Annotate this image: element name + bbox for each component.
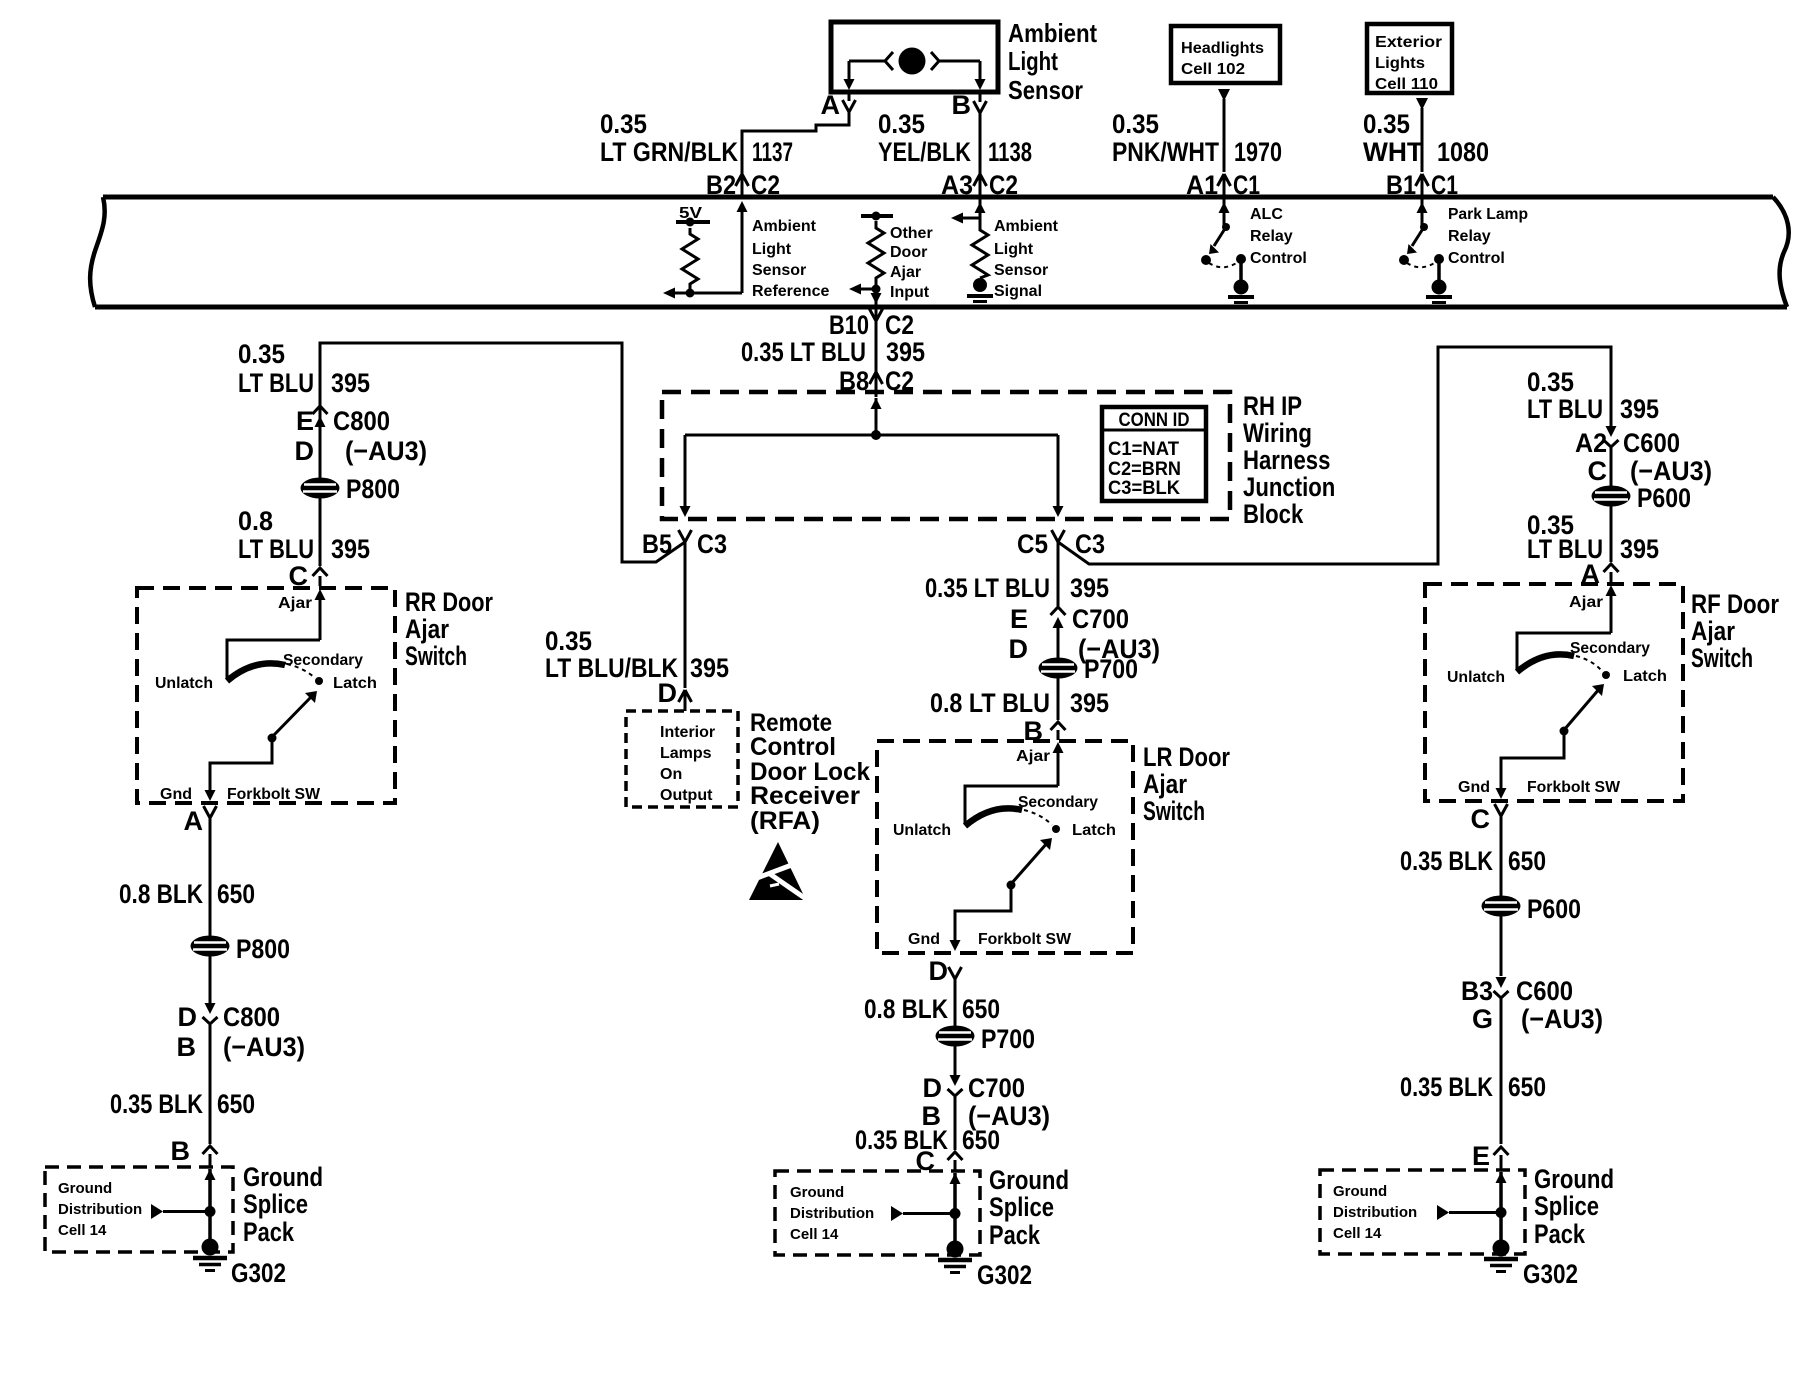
svg-text:B: B [952, 90, 972, 120]
wire 1970 from headlights cell [1218, 89, 1230, 172]
svg-text:Block: Block [1243, 499, 1304, 529]
wire B5 down to RFA receiver [684, 542, 687, 688]
svg-text:C700: C700 [968, 1073, 1025, 1103]
pin D of RFA receiver [658, 678, 692, 708]
label Ground Distribution Cell 14 (right) [1333, 1183, 1417, 1242]
label Park Lamp Relay Control [1448, 206, 1528, 267]
wire A3 inside with up arrow [975, 197, 986, 222]
svg-text:C: C [1588, 456, 1608, 486]
wire 395 B10 to B8 [875, 307, 878, 372]
svg-text:C800: C800 [333, 406, 390, 436]
wire 0.8 BLK 650 (LR) [954, 979, 957, 1026]
connector C800 pins E and D [295, 406, 428, 466]
svg-text:D: D [178, 1002, 198, 1032]
resistor R2 other door ajar input [868, 221, 884, 285]
svg-text:Cell 102: Cell 102 [1181, 61, 1245, 78]
connector B5 C3 [642, 529, 727, 559]
svg-text:LT BLU: LT BLU [1527, 394, 1603, 424]
svg-text:CONN ID: CONN ID [1119, 410, 1190, 431]
label RF Door Ajar Switch [1691, 589, 1779, 673]
svg-text:YEL/BLK: YEL/BLK [878, 137, 971, 167]
wire B1 into module [1421, 174, 1424, 197]
wire 0.8 BLK 650 (RR) [209, 818, 212, 936]
svg-text:Ajar: Ajar [890, 264, 921, 281]
label Ajar (RF) [1569, 594, 1603, 611]
svg-text:Ambient: Ambient [994, 218, 1059, 235]
pin C of RF door switch [1471, 804, 1508, 834]
svg-text:A: A [184, 806, 204, 836]
svg-text:Unlatch: Unlatch [155, 675, 213, 692]
LR forkbolt pivot [1007, 881, 1016, 890]
RR ajar pin entry arrow [315, 589, 326, 640]
svg-text:C600: C600 [1623, 428, 1680, 458]
svg-text:Latch: Latch [333, 675, 377, 692]
label Other Door Ajar Input [890, 225, 933, 301]
wire 0.8 LT BLU 395 [319, 498, 322, 566]
svg-text:0.35 BLK: 0.35 BLK [1400, 1072, 1493, 1102]
label RR Door Ajar Switch [405, 587, 493, 671]
svg-text:Lamps: Lamps [660, 745, 712, 762]
label Forkbolt SW (RF) [1527, 779, 1621, 796]
label 0.35 WHT 1080 [1363, 109, 1489, 167]
wire 0.35 BLK 650 (RF) [1500, 816, 1503, 896]
label LR Door Ajar Switch [1143, 742, 1230, 826]
label Ajar (LR) [1016, 748, 1050, 765]
svg-text:0.35: 0.35 [1112, 109, 1159, 139]
label Latch (RF) [1623, 668, 1667, 685]
svg-text:Cell 110: Cell 110 [1375, 76, 1438, 93]
wire 1080 from exterior lights cell [1416, 98, 1428, 172]
CONN ID table [1102, 407, 1206, 501]
svg-text:Harness: Harness [1243, 445, 1330, 475]
RF switch blade arc [1517, 654, 1602, 672]
label 0.35 BLK 650 (LR) [855, 1125, 1000, 1155]
wire B10 exit with arrow [871, 285, 882, 307]
label 0.35 LT BLU 395 (C5) [925, 573, 1109, 603]
splice P700 lower [936, 1024, 1036, 1054]
5V supply bar [676, 218, 710, 227]
exterior lights cell 110 box [1367, 24, 1452, 93]
svg-text:Splice: Splice [989, 1192, 1054, 1222]
label 0.35 PNK/WHT 1970 [1112, 109, 1282, 167]
module band outline [90, 197, 1789, 307]
svg-text:WHT: WHT [1363, 137, 1423, 167]
svg-text:C3=BLK: C3=BLK [1108, 478, 1180, 499]
svg-text:Splice: Splice [243, 1189, 308, 1219]
LR switch blade arc [965, 808, 1052, 826]
label Ambient Light Sensor Reference [752, 218, 829, 300]
svg-text:Ajar: Ajar [278, 595, 312, 612]
splice P700 upper [1039, 654, 1139, 684]
svg-text:C1=NAT: C1=NAT [1108, 439, 1179, 460]
ESD sensitive device symbol [749, 842, 809, 901]
svg-text:Ground: Ground [58, 1180, 112, 1197]
label Ground Splice Pack (right) [1534, 1164, 1614, 1249]
svg-text:Secondary: Secondary [1570, 640, 1650, 657]
ground distribution cell 14 box (center) [775, 1171, 980, 1255]
pin E ground splice entry (RF) [1472, 1141, 1509, 1171]
svg-text:Lights: Lights [1375, 55, 1425, 72]
label 0.8 BLK 650 (RR) [119, 879, 255, 909]
svg-text:Input: Input [890, 284, 930, 301]
label Gnd (LR) [908, 931, 940, 948]
label 0.35 LT BLU 395 (B10) [741, 337, 925, 367]
svg-text:Gnd: Gnd [160, 786, 192, 803]
svg-text:Control: Control [750, 733, 836, 761]
ground G1 sensor signal [967, 278, 993, 302]
RR switch blade arc [227, 663, 315, 681]
junction block left leg to B5 [680, 435, 691, 517]
label Remote Control Door Lock Receiver RFA [750, 709, 870, 835]
label 0.8 LT BLU 395 [238, 506, 370, 564]
wire C600 to P600 [1610, 447, 1613, 486]
splice pack wire (left) [205, 1169, 216, 1240]
wire 0.8 LT BLU 395 (LR) [1057, 678, 1060, 720]
svg-text:G302: G302 [1523, 1259, 1578, 1289]
svg-text:E: E [296, 406, 314, 436]
svg-text:0.35: 0.35 [238, 339, 285, 369]
connector B10 C2 [829, 309, 914, 340]
wire A1 inside with up arrow [1219, 197, 1230, 226]
svg-text:B3: B3 [1461, 976, 1493, 1006]
splice pack node (left) [205, 1206, 216, 1217]
RR forkbolt actuator arrow [272, 691, 317, 737]
svg-text:0.8 BLK: 0.8 BLK [119, 879, 203, 909]
ground distribution cell 14 box (left) [45, 1167, 233, 1252]
RF ajar pin entry arrow [1606, 585, 1617, 633]
connector C600 pins B3 and G [1461, 976, 1603, 1034]
svg-text:D: D [1009, 634, 1029, 664]
svg-text:Signal: Signal [994, 283, 1042, 300]
label G302 (left) [231, 1258, 286, 1288]
pin B of LR door switch [1024, 716, 1066, 746]
RF gnd wire [1496, 731, 1565, 799]
svg-text:Ground: Ground [1534, 1164, 1614, 1194]
svg-text:Reference: Reference [752, 283, 829, 300]
label 5V [679, 205, 702, 222]
connector C800 pins D and B [177, 1002, 306, 1062]
svg-text:0.35: 0.35 [878, 109, 925, 139]
wire A3 into module [979, 174, 982, 197]
svg-text:Distribution: Distribution [58, 1201, 142, 1218]
svg-text:Output: Output [660, 787, 713, 804]
svg-text:Relay: Relay [1448, 228, 1491, 245]
connector C600 pins A2 and C [1575, 426, 1712, 486]
connector C700 pins D and B [922, 1073, 1051, 1131]
RR door ajar switch box [137, 588, 395, 803]
svg-text:B: B [177, 1032, 197, 1062]
svg-text:Forkbolt SW: Forkbolt SW [978, 931, 1072, 948]
wire 0.35 BLK 650 lower (RF) [1500, 998, 1503, 1144]
svg-text:Receiver: Receiver [750, 782, 860, 810]
svg-text:0.35 LT BLU: 0.35 LT BLU [925, 573, 1050, 603]
svg-text:Ajar: Ajar [405, 614, 449, 644]
svg-text:Ajar: Ajar [1569, 594, 1603, 611]
svg-text:Light: Light [1008, 46, 1058, 76]
label 0.35 LT BLU/BLK 395 [545, 626, 729, 683]
wire P600 to C600 [1500, 916, 1503, 976]
label Gnd (RF) [1458, 779, 1490, 796]
svg-text:Exterior: Exterior [1375, 34, 1442, 51]
svg-text:Distribution: Distribution [790, 1205, 874, 1222]
label 0.35 BLK 650 (RF bottom) [1400, 1072, 1546, 1102]
svg-text:395: 395 [1620, 534, 1659, 564]
svg-text:G302: G302 [977, 1260, 1032, 1290]
svg-text:D: D [295, 436, 315, 466]
label Ambient Light Sensor Signal [994, 218, 1059, 300]
svg-text:G302: G302 [231, 1258, 286, 1288]
node junction under R1 [686, 289, 695, 298]
pin B of ambient light sensor [952, 90, 987, 120]
splice pack wire (center) [950, 1173, 961, 1242]
svg-text:1138: 1138 [988, 137, 1032, 167]
ground G3 park lamp relay [1426, 280, 1452, 308]
svg-text:Junction: Junction [1243, 472, 1335, 502]
svg-text:0.35 BLK: 0.35 BLK [110, 1089, 203, 1119]
label 0.35 BLK 650 (RR) [110, 1089, 255, 1119]
svg-text:D: D [658, 678, 678, 708]
svg-text:RF Door: RF Door [1691, 589, 1779, 619]
label Latch (RR) [333, 675, 377, 692]
svg-text:395: 395 [1620, 394, 1659, 424]
switch S1 ALC relay control [1201, 223, 1246, 280]
svg-text:0.35 BLK: 0.35 BLK [1400, 846, 1493, 876]
svg-text:395: 395 [690, 653, 729, 683]
label G302 (right) [1523, 1259, 1578, 1289]
svg-text:1970: 1970 [1234, 137, 1282, 167]
wire B8 into junction block [875, 372, 878, 397]
svg-text:0.35 LT BLU: 0.35 LT BLU [741, 337, 866, 367]
svg-text:Switch: Switch [405, 641, 467, 671]
wire 395 to RR door connector [319, 404, 322, 478]
wire P800 to C800 [209, 956, 212, 1005]
RR gnd wire [205, 738, 273, 801]
svg-text:Pack: Pack [1534, 1219, 1586, 1249]
svg-text:Gnd: Gnd [908, 931, 940, 948]
svg-text:Sensor: Sensor [752, 262, 806, 279]
svg-text:1080: 1080 [1437, 137, 1489, 167]
label Gnd (RR) [160, 786, 192, 803]
svg-text:Latch: Latch [1623, 668, 1667, 685]
svg-text:Ground: Ground [989, 1165, 1069, 1195]
splice P600 lower [1482, 894, 1582, 924]
label 0.35 LT GRN/BLK 1137 [600, 109, 793, 167]
label 0.35 BLK 650 (RF top) [1400, 846, 1546, 876]
svg-text:G: G [1472, 1004, 1493, 1034]
label Ground Distribution Cell 14 (left) [58, 1180, 142, 1239]
label Ground Splice Pack (center) [989, 1165, 1069, 1250]
svg-text:650: 650 [1508, 1072, 1546, 1102]
LR forkbolt actuator arrow [1011, 838, 1052, 884]
RH IP wiring harness junction block box [662, 392, 1230, 519]
svg-text:Secondary: Secondary [283, 652, 363, 669]
svg-text:0.8: 0.8 [238, 506, 273, 536]
svg-text:C3: C3 [697, 529, 727, 559]
LR gnd wire [950, 885, 1012, 951]
svg-text:395: 395 [331, 368, 370, 398]
svg-text:0.35: 0.35 [600, 109, 647, 139]
wire B1 inside with up arrow [1417, 197, 1428, 226]
svg-text:Light: Light [752, 241, 792, 258]
svg-text:ALC: ALC [1250, 206, 1283, 223]
svg-text:0.35: 0.35 [1363, 109, 1410, 139]
junction block bus wire [685, 434, 1058, 437]
svg-text:E: E [1472, 1141, 1490, 1171]
svg-text:P700: P700 [1084, 654, 1138, 684]
pin A of ambient light sensor [821, 90, 856, 120]
junction block right leg to C5 [1053, 435, 1064, 517]
svg-text:650: 650 [1508, 846, 1546, 876]
svg-text:C2: C2 [885, 310, 914, 340]
label Ambient Light Sensor [1008, 18, 1097, 105]
label Secondary (RF) [1570, 640, 1650, 657]
svg-text:Ajar: Ajar [1143, 769, 1187, 799]
svg-text:Wiring: Wiring [1243, 418, 1312, 448]
other door ajar input bar [861, 212, 893, 221]
label Headlights Cell 102 [1181, 40, 1264, 78]
label ALC Relay Control [1250, 206, 1307, 267]
svg-text:0.8 LT BLU: 0.8 LT BLU [930, 688, 1050, 718]
svg-text:(−AU3): (−AU3) [1521, 1004, 1603, 1034]
svg-text:Light: Light [994, 241, 1034, 258]
svg-text:C3: C3 [1075, 529, 1105, 559]
label Ground Splice Pack (left) [243, 1162, 323, 1247]
label 0.35 LT BLU 395 (RF top) [1527, 367, 1659, 424]
svg-text:Gnd: Gnd [1458, 779, 1490, 796]
svg-text:Cell 14: Cell 14 [1333, 1225, 1382, 1242]
label Exterior Lights Cell 110 [1375, 34, 1442, 93]
svg-text:Ambient: Ambient [752, 218, 817, 235]
svg-text:395: 395 [1070, 573, 1109, 603]
svg-text:B10: B10 [829, 310, 869, 340]
wire 0.35 LT BLU 395 (RF) [1610, 506, 1613, 562]
svg-text:P800: P800 [346, 474, 400, 504]
svg-text:Pack: Pack [243, 1217, 295, 1247]
node junction under R2 [872, 285, 881, 294]
connector B2 C2 [706, 170, 780, 200]
svg-text:Ground: Ground [790, 1184, 844, 1201]
svg-text:C: C [1471, 804, 1491, 834]
RF door ajar switch box [1425, 584, 1683, 801]
splice pack branch arrow (center) [891, 1206, 955, 1221]
ambient light sensor U1 box [831, 22, 998, 92]
svg-text:395: 395 [886, 337, 925, 367]
switch S2 park lamp relay control [1399, 223, 1444, 280]
label Forkbolt SW (RR) [227, 786, 321, 803]
splice pack node (right) [1496, 1207, 1507, 1218]
wire 0.35 BLK 650 (LR) [954, 1096, 957, 1150]
RF latch contact [1602, 671, 1610, 679]
label Latch (LR) [1072, 822, 1116, 839]
svg-text:Distribution: Distribution [1333, 1204, 1417, 1221]
RR latch contact [315, 677, 323, 685]
label Unlatch (LR) [893, 822, 951, 839]
svg-text:Ajar: Ajar [1691, 616, 1735, 646]
svg-text:LT GRN/BLK: LT GRN/BLK [600, 137, 738, 167]
svg-text:Unlatch: Unlatch [893, 822, 951, 839]
RF switch common wire [1517, 633, 1611, 669]
label Secondary (LR) [1018, 794, 1098, 811]
svg-text:0.35: 0.35 [545, 626, 592, 656]
svg-text:Ajar: Ajar [1016, 748, 1050, 765]
svg-text:650: 650 [962, 994, 1000, 1024]
svg-text:(−AU3): (−AU3) [223, 1032, 305, 1062]
wire riser to B2 with arrow [737, 201, 748, 293]
wire B2 into module [741, 174, 744, 197]
label 0.8 LT BLU 395 (LR) [930, 688, 1109, 718]
svg-text:650: 650 [217, 879, 255, 909]
label Forkbolt SW (LR) [978, 931, 1072, 948]
connector B8 C2 [839, 366, 914, 396]
RR forkbolt pivot [268, 734, 277, 743]
svg-text:Door: Door [890, 244, 927, 261]
svg-text:LR Door: LR Door [1143, 742, 1230, 772]
resistor R3 ambient light sensor signal [972, 222, 988, 278]
svg-text:E: E [1010, 604, 1028, 634]
ground G2 ALC relay [1228, 280, 1254, 308]
svg-text:D: D [923, 1073, 943, 1103]
label 0.35 YEL/BLK 1138 [878, 109, 1032, 167]
LR switch common wire [965, 786, 1058, 823]
svg-text:Cell 14: Cell 14 [58, 1222, 107, 1239]
svg-text:Interior: Interior [660, 724, 715, 741]
RF forkbolt actuator arrow [1564, 684, 1604, 730]
splice P800 lower [191, 934, 291, 964]
svg-text:650: 650 [217, 1089, 255, 1119]
svg-text:C700: C700 [1072, 604, 1129, 634]
svg-text:1137: 1137 [752, 137, 793, 167]
svg-text:Relay: Relay [1250, 228, 1293, 245]
LR latch contact [1052, 825, 1060, 833]
svg-text:Forkbolt SW: Forkbolt SW [227, 786, 321, 803]
svg-text:Switch: Switch [1143, 796, 1205, 826]
svg-text:Cell 14: Cell 14 [790, 1226, 839, 1243]
svg-text:650: 650 [962, 1125, 1000, 1155]
svg-text:Pack: Pack [989, 1220, 1041, 1250]
ground G302 (center) [938, 1241, 972, 1273]
label Unlatch (RR) [155, 675, 213, 692]
LR door ajar switch box [877, 741, 1133, 953]
pin C ground splice entry (LR) [916, 1146, 963, 1176]
wire C700 to P700 [1057, 620, 1060, 658]
svg-text:Forkbolt SW: Forkbolt SW [1527, 779, 1621, 796]
svg-text:C5: C5 [1017, 529, 1048, 559]
svg-text:Headlights: Headlights [1181, 40, 1264, 57]
ground G302 (right) [1484, 1240, 1518, 1272]
svg-text:Control: Control [1448, 250, 1505, 267]
svg-text:B: B [171, 1136, 191, 1166]
svg-text:PNK/WHT: PNK/WHT [1112, 137, 1219, 167]
label 0.8 BLK 650 (LR) [864, 994, 1000, 1024]
svg-text:Latch: Latch [1072, 822, 1116, 839]
svg-text:0.35: 0.35 [1527, 367, 1574, 397]
label 0.35 LT BLU 395 (RF mid) [1527, 510, 1659, 564]
label Ajar (RR) [278, 595, 312, 612]
label RH IP Wiring Harness Junction Block [1243, 391, 1335, 529]
svg-text:Secondary: Secondary [1018, 794, 1098, 811]
wire P700 to C700 [954, 1046, 957, 1078]
wire 1137 from pin A to B2 [742, 112, 849, 174]
junction block node J1 [871, 430, 881, 440]
pin D of LR door switch [929, 956, 962, 986]
connector A3 C2 [941, 170, 1018, 200]
RF forkbolt pivot [1560, 727, 1569, 736]
svg-text:Sensor: Sensor [994, 262, 1048, 279]
svg-text:A: A [821, 90, 841, 120]
wire reference output with arrow [663, 288, 742, 299]
svg-text:395: 395 [331, 534, 370, 564]
svg-text:P700: P700 [981, 1024, 1035, 1054]
